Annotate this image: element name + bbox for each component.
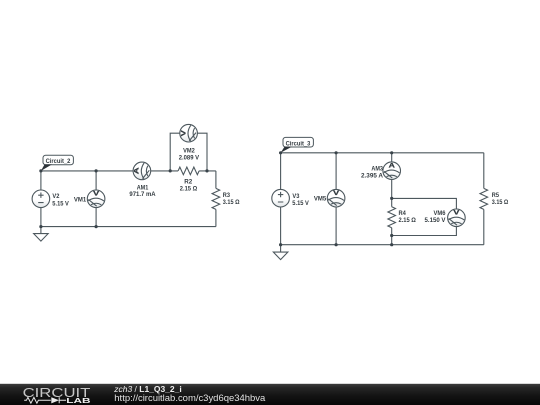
svg-text:LAB: LAB: [66, 396, 91, 405]
svg-text:2.15 Ω: 2.15 Ω: [399, 217, 416, 224]
svg-text:2.395 A: 2.395 A: [361, 173, 383, 180]
svg-text:R2: R2: [184, 179, 192, 186]
svg-text:http://circuitlab.com/c3yd6qe3: http://circuitlab.com/c3yd6qe34hbva: [114, 392, 266, 403]
svg-text:3.15 Ω: 3.15 Ω: [492, 199, 509, 206]
svg-text:2.15 Ω: 2.15 Ω: [180, 186, 197, 193]
svg-text:VM5: VM5: [314, 195, 327, 202]
svg-text:A: A: [134, 167, 141, 175]
svg-text:R3: R3: [223, 192, 231, 199]
svg-text:5.150 V: 5.150 V: [425, 217, 447, 224]
svg-text:Circuit_2: Circuit_2: [46, 158, 71, 165]
svg-text:V2: V2: [52, 193, 59, 200]
svg-text:3.15 Ω: 3.15 Ω: [223, 199, 240, 206]
svg-text:5.15 V: 5.15 V: [52, 200, 69, 207]
svg-text:Circuit_3: Circuit_3: [286, 140, 311, 147]
svg-text:A: A: [389, 163, 396, 170]
svg-text:R5: R5: [492, 192, 500, 199]
svg-text:AM3: AM3: [371, 166, 383, 173]
svg-text:VM6: VM6: [434, 210, 446, 217]
svg-text:971.7 mA: 971.7 mA: [129, 191, 156, 198]
svg-text:R4: R4: [399, 210, 407, 217]
svg-text:V3: V3: [292, 193, 299, 200]
svg-text:2.089 V: 2.089 V: [179, 154, 200, 161]
svg-text:5.15 V: 5.15 V: [292, 200, 309, 207]
svg-text:VM1: VM1: [74, 196, 87, 203]
